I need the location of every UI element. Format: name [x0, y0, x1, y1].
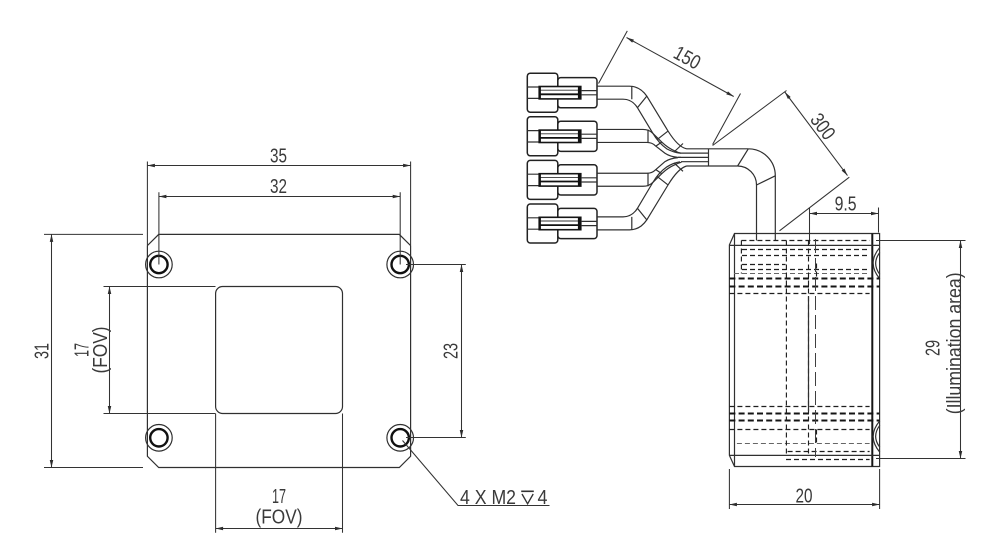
svg-text:20: 20 — [796, 486, 813, 508]
cable bundle neck — [674, 144, 748, 172]
svg-text:9.5: 9.5 — [835, 194, 857, 216]
hole top-right — [387, 251, 414, 278]
svg-text:32: 32 — [270, 176, 287, 198]
dimension 9.5 — [810, 194, 879, 245]
connector J1 — [527, 73, 597, 112]
right edge arcs top — [873, 248, 880, 279]
svg-text:29: 29 — [923, 340, 945, 356]
svg-text:(FOV): (FOV) — [90, 327, 112, 374]
dimension 17 (FOV) bottom — [216, 414, 343, 533]
svg-text:(Illumination area): (Illumination area) — [944, 272, 966, 414]
connector J4 — [527, 204, 597, 243]
dimension 31 — [32, 234, 144, 467]
cable 4 — [597, 162, 686, 230]
body inner solid lines — [729, 234, 879, 456]
hidden lines bottom block — [729, 407, 879, 460]
svg-text:31: 31 — [32, 343, 54, 359]
svg-text:(FOV): (FOV) — [256, 506, 303, 528]
dimension 29 (Illumination area) — [876, 241, 966, 459]
hole bottom-right — [387, 425, 414, 452]
hidden lines top block — [729, 241, 879, 294]
dimension 150 — [599, 31, 741, 145]
body right inner edge — [871, 234, 873, 467]
svg-text:150: 150 — [670, 42, 704, 74]
hole bottom-left — [146, 425, 173, 452]
svg-text:23: 23 — [441, 343, 463, 359]
dimension 35 — [147, 146, 410, 246]
body outline — [729, 234, 879, 467]
cable 2 — [597, 129, 681, 157]
plate outline — [147, 234, 410, 467]
svg-text:300: 300 — [805, 109, 839, 144]
svg-text:4 X M2: 4 X M2 — [460, 487, 516, 509]
cable 3 — [597, 158, 681, 187]
cable 1 — [597, 86, 686, 153]
connector J2 — [527, 117, 597, 156]
hole top-left — [146, 251, 173, 278]
dimension 300 — [713, 91, 850, 231]
dimension 20 — [729, 469, 879, 509]
FOV window — [216, 287, 343, 414]
svg-text:4: 4 — [538, 487, 548, 509]
leader 4 X M2 depth 4 — [403, 441, 550, 509]
dimension 32 — [159, 176, 400, 264]
connector J3 — [527, 160, 597, 199]
bundle 90-degree bend down — [738, 149, 776, 234]
dimension 23 — [406, 265, 466, 438]
hidden vertical lines — [741, 239, 816, 457]
right edge arcs bottom — [873, 421, 880, 452]
svg-text:35: 35 — [270, 146, 287, 168]
svg-text:17: 17 — [272, 486, 286, 508]
dimension 17 (FOV) left — [72, 287, 216, 414]
